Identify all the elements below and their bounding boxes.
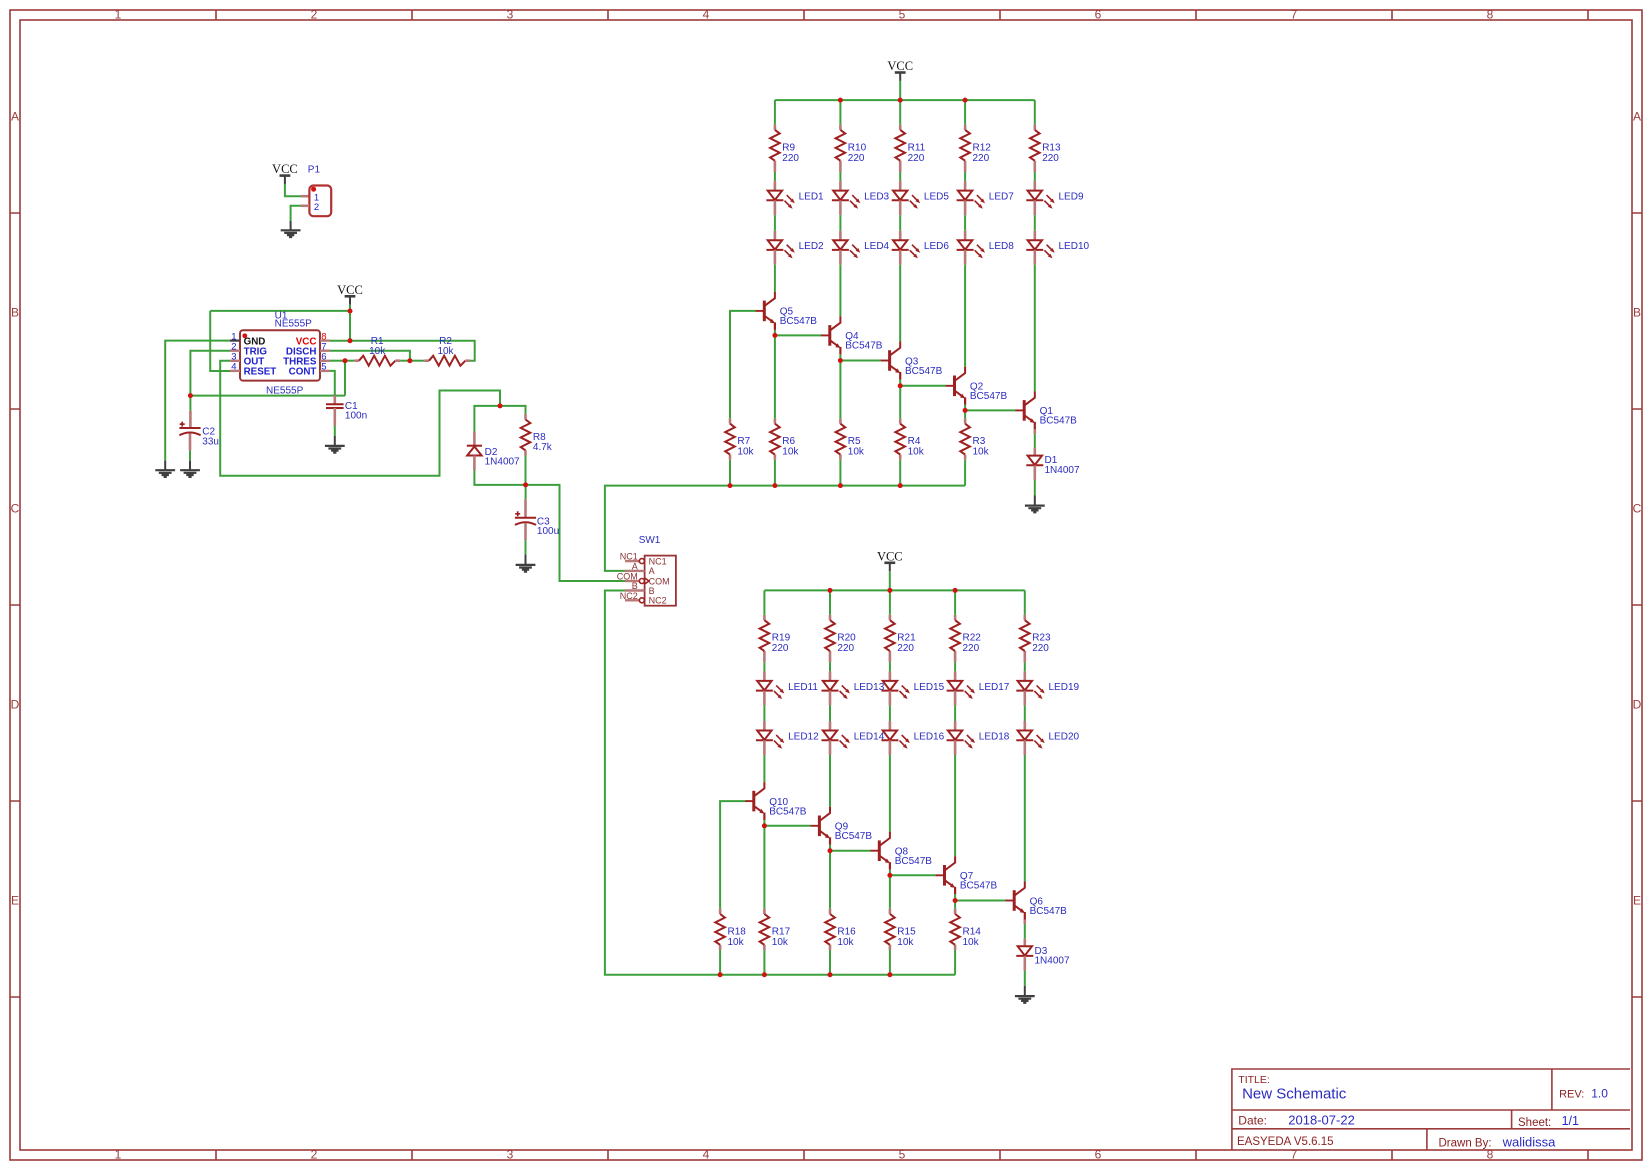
LED LED8: [957, 231, 1015, 265]
svg-text:LED16: LED16: [914, 731, 945, 742]
svg-text:3: 3: [507, 1148, 514, 1162]
svg-text:NC1: NC1: [620, 552, 638, 562]
wire: [839, 172, 841, 181]
wire: [954, 662, 956, 671]
resistor R1: [354, 336, 400, 366]
resistor R20: [825, 615, 856, 662]
power VCC: [877, 549, 903, 571]
svg-text:A: A: [11, 110, 19, 124]
ground: [325, 446, 345, 453]
svg-text:R12: R12: [973, 142, 992, 153]
wire: [344, 361, 346, 396]
svg-text:R4: R4: [908, 436, 921, 447]
svg-text:R16: R16: [837, 926, 856, 937]
transistor Q6: [1005, 882, 1067, 920]
wire: [890, 874, 936, 876]
wire: [889, 950, 891, 975]
svg-text:LED18: LED18: [979, 731, 1010, 742]
svg-text:NC2: NC2: [620, 591, 638, 601]
svg-text:10k: 10k: [369, 346, 386, 357]
wire: [839, 265, 841, 317]
wire: [285, 184, 301, 196]
wire junction: [828, 588, 833, 593]
wire VCC rail: [775, 99, 1035, 101]
svg-text:220: 220: [782, 153, 799, 164]
wire: [1024, 971, 1026, 986]
wire: [829, 755, 831, 807]
resistor R14: [950, 909, 981, 950]
svg-text:1N4007: 1N4007: [1045, 465, 1080, 476]
svg-text:R15: R15: [897, 926, 916, 937]
wire: [763, 590, 765, 615]
wire junction: [343, 358, 348, 363]
svg-text:220: 220: [772, 643, 789, 654]
wire: [1034, 434, 1036, 448]
wire: [189, 451, 191, 461]
svg-text:7: 7: [1291, 1148, 1298, 1162]
wire: [889, 590, 891, 615]
LED LED14: [822, 721, 885, 755]
svg-text:A: A: [632, 561, 638, 571]
resistor R6: [770, 418, 799, 459]
resistor R15: [885, 909, 916, 950]
resistor R12: [960, 125, 991, 172]
wire VCC rail: [764, 589, 1024, 591]
ground: [1025, 506, 1045, 513]
wire: [774, 335, 776, 418]
capacitor C3: [515, 511, 559, 537]
resistor R11: [895, 125, 925, 172]
capacitor C2: [179, 422, 219, 448]
wire junction: [898, 98, 903, 103]
wire: [525, 456, 527, 485]
wire junction: [828, 972, 833, 977]
wire: [889, 662, 891, 671]
wire: [954, 950, 956, 975]
svg-text:LED19: LED19: [1049, 682, 1080, 693]
svg-text:BC547B: BC547B: [960, 881, 998, 892]
wire: [899, 380, 901, 386]
svg-text:LED13: LED13: [854, 682, 885, 693]
wire: [964, 460, 966, 486]
svg-text:5: 5: [899, 8, 906, 22]
svg-text:220: 220: [1032, 643, 1049, 654]
wire: [964, 100, 966, 125]
svg-text:1.0: 1.0: [1591, 1087, 1608, 1101]
wire junction: [188, 393, 193, 398]
wire: [954, 755, 956, 856]
svg-text:8: 8: [1487, 1148, 1494, 1162]
ground: [281, 230, 301, 237]
svg-text:NC2: NC2: [649, 596, 667, 606]
svg-text:100u: 100u: [537, 526, 559, 537]
svg-text:R7: R7: [737, 436, 750, 447]
LED LED4: [832, 231, 890, 265]
title block: [1232, 1069, 1630, 1150]
wire: [1024, 590, 1026, 615]
resistor R17: [760, 909, 791, 950]
svg-text:BC547B: BC547B: [835, 831, 873, 842]
svg-text:LED8: LED8: [989, 241, 1014, 252]
wire: [291, 206, 301, 221]
svg-text:LED7: LED7: [989, 192, 1014, 203]
svg-text:BC547B: BC547B: [780, 316, 818, 327]
wire: [525, 540, 527, 554]
wire junction: [348, 338, 353, 343]
wire junction: [523, 482, 528, 487]
wire: [330, 351, 410, 361]
svg-text:C: C: [11, 502, 20, 516]
svg-text:R5: R5: [848, 436, 861, 447]
wire: [764, 825, 810, 827]
wire: [775, 334, 821, 336]
wire: [605, 591, 955, 975]
capacitor C1: [326, 401, 367, 422]
wire junction: [772, 483, 777, 488]
wire: [839, 460, 841, 486]
wire: [210, 310, 350, 312]
svg-text:LED12: LED12: [788, 731, 819, 742]
resistor R23: [1020, 615, 1051, 662]
wire: [965, 409, 1016, 411]
wire: [954, 901, 956, 909]
LED LED5: [892, 181, 950, 215]
wire junction: [828, 848, 833, 853]
svg-text:BC547B: BC547B: [1030, 906, 1068, 917]
wire: [889, 875, 891, 908]
LED LED15: [881, 671, 944, 705]
LED LED11: [756, 671, 818, 705]
wire junction: [898, 483, 903, 488]
svg-text:5: 5: [321, 362, 326, 373]
wire: [400, 360, 410, 362]
op-amp U1 NE555P: [230, 310, 330, 396]
wire junction: [407, 358, 412, 363]
wire: [763, 705, 765, 721]
ground: [516, 565, 536, 572]
wire junction: [898, 383, 903, 388]
wire: [889, 705, 891, 721]
resistor R9: [770, 125, 799, 172]
wire: [829, 851, 831, 909]
LED LED7: [957, 181, 1015, 215]
wire: [899, 460, 901, 486]
svg-text:LED17: LED17: [979, 682, 1010, 693]
svg-text:6: 6: [1095, 1148, 1102, 1162]
wire: [1024, 924, 1026, 939]
wire: [839, 215, 841, 231]
svg-text:220: 220: [1042, 153, 1059, 164]
wire: [964, 172, 966, 181]
svg-text:10k: 10k: [728, 937, 745, 948]
wire: [330, 360, 345, 362]
resistor R18: [715, 909, 746, 950]
transistor Q5: [756, 292, 818, 330]
wire: [954, 894, 956, 900]
diode D3: [1016, 939, 1070, 967]
wire: [830, 850, 871, 852]
wire: [730, 311, 756, 419]
wire junction: [762, 972, 767, 977]
resistor R19: [760, 615, 791, 662]
svg-text:1N4007: 1N4007: [485, 457, 520, 468]
ground: [1015, 996, 1035, 1003]
wire junction: [728, 483, 733, 488]
connector P1: [308, 164, 331, 216]
svg-text:10k: 10k: [772, 937, 789, 948]
svg-text:R22: R22: [963, 633, 982, 644]
LED LED6: [892, 231, 950, 265]
svg-text:R10: R10: [848, 142, 867, 153]
wire: [1024, 662, 1026, 671]
wire: [1024, 705, 1026, 721]
svg-text:E: E: [11, 894, 19, 908]
svg-text:2018-07-22: 2018-07-22: [1288, 1113, 1355, 1128]
wire: [345, 360, 354, 362]
wire: [1034, 480, 1036, 495]
LED LED2: [766, 231, 824, 265]
wire: [220, 361, 500, 476]
svg-text:COM: COM: [617, 572, 638, 582]
svg-text:B: B: [649, 586, 655, 596]
wire: [334, 426, 336, 436]
wire junction: [762, 823, 767, 828]
LED LED20: [1016, 721, 1079, 755]
wire: [349, 311, 351, 341]
svg-text:REV:: REV:: [1559, 1089, 1584, 1101]
svg-text:1N4007: 1N4007: [1035, 956, 1070, 967]
LED LED17: [947, 671, 1010, 705]
wire junction: [953, 898, 958, 903]
wire: [955, 900, 1006, 902]
wire: [330, 371, 335, 396]
wire junction: [963, 408, 968, 413]
svg-text:R9: R9: [782, 142, 795, 153]
resistor R16: [825, 909, 856, 950]
resistor R7: [725, 418, 754, 459]
wire: [1034, 215, 1036, 231]
transistor Q1: [1015, 391, 1077, 429]
wire junction: [887, 873, 892, 878]
svg-text:220: 220: [973, 153, 990, 164]
wire: [1034, 100, 1036, 125]
wire: [719, 950, 721, 975]
svg-text:VCC: VCC: [272, 162, 298, 176]
svg-text:B: B: [1633, 306, 1641, 320]
LED LED3: [832, 181, 890, 215]
svg-text:LED5: LED5: [924, 192, 949, 203]
svg-text:R21: R21: [897, 633, 916, 644]
wire: [829, 590, 831, 615]
svg-text:COM: COM: [649, 576, 670, 586]
ground: [180, 470, 200, 477]
svg-text:E: E: [1633, 894, 1641, 908]
svg-text:NE555P: NE555P: [275, 319, 313, 330]
wire: [189, 396, 191, 411]
svg-text:4: 4: [703, 8, 710, 22]
svg-text:R19: R19: [772, 633, 791, 644]
wire: [889, 571, 891, 590]
diode D2: [467, 446, 520, 468]
svg-text:1: 1: [115, 8, 122, 22]
wire: [774, 215, 776, 231]
svg-text:BC547B: BC547B: [895, 856, 933, 867]
wire: [964, 405, 966, 411]
svg-text:R14: R14: [963, 926, 982, 937]
svg-text:10k: 10k: [837, 937, 854, 948]
resistor R22: [950, 615, 981, 662]
LED LED19: [1016, 671, 1079, 705]
power VCC: [337, 283, 363, 305]
diode D1: [1026, 448, 1080, 476]
svg-text:A: A: [1633, 110, 1641, 124]
wire junction: [963, 98, 968, 103]
wire junction: [838, 483, 843, 488]
frame row letters: [11, 110, 1642, 908]
wire junction: [348, 309, 353, 314]
svg-text:5: 5: [899, 1148, 906, 1162]
wire: [954, 705, 956, 721]
wire: [899, 172, 901, 181]
wire: [774, 265, 776, 292]
transistor Q10: [745, 782, 807, 820]
svg-text:B: B: [632, 581, 638, 591]
transistor Q4: [821, 316, 883, 354]
wire: [900, 385, 946, 387]
resistor R2: [424, 336, 470, 366]
wire junction: [772, 333, 777, 338]
resistor R13: [1030, 125, 1061, 172]
wire junction: [953, 588, 958, 593]
wire: [763, 662, 765, 671]
wire: [1024, 755, 1026, 882]
svg-text:1/1: 1/1: [1562, 1114, 1579, 1128]
wire: [1034, 172, 1036, 181]
resistor R21: [885, 615, 916, 662]
svg-text:walidissa: walidissa: [1502, 1134, 1557, 1149]
wire: [829, 662, 831, 671]
svg-text:220: 220: [848, 153, 865, 164]
power VCC: [887, 59, 913, 81]
svg-text:Sheet:: Sheet:: [1518, 1117, 1551, 1129]
wire: [774, 330, 776, 336]
resistor R8: [521, 414, 553, 455]
svg-text:10k: 10k: [848, 447, 865, 458]
LED LED9: [1026, 181, 1084, 215]
svg-text:VCC: VCC: [887, 59, 913, 73]
wire: [165, 341, 230, 461]
resistor R3: [960, 418, 989, 459]
wire: [774, 172, 776, 181]
svg-text:100n: 100n: [345, 411, 367, 422]
svg-text:LED3: LED3: [864, 192, 889, 203]
svg-text:10k: 10k: [908, 447, 925, 458]
wire: [889, 755, 891, 832]
svg-text:LED2: LED2: [799, 241, 824, 252]
wire: [839, 354, 841, 360]
svg-text:220: 220: [837, 643, 854, 654]
svg-text:LED6: LED6: [924, 241, 949, 252]
svg-text:SW1: SW1: [639, 535, 661, 546]
wire: [526, 485, 625, 581]
svg-text:R13: R13: [1042, 142, 1061, 153]
wire: [210, 311, 230, 371]
svg-text:RESET: RESET: [244, 367, 277, 378]
power VCC: [272, 162, 298, 184]
svg-text:R17: R17: [772, 926, 791, 937]
wire: [964, 410, 966, 418]
wire junction: [887, 588, 892, 593]
svg-text:LED1: LED1: [799, 192, 824, 203]
svg-text:4.7k: 4.7k: [533, 442, 553, 453]
svg-text:6: 6: [1095, 8, 1102, 22]
svg-text:4: 4: [231, 362, 236, 373]
svg-text:BC547B: BC547B: [970, 391, 1008, 402]
svg-text:R20: R20: [837, 633, 856, 644]
wire: [954, 590, 956, 615]
wire: [840, 360, 881, 362]
svg-text:New Schematic: New Schematic: [1242, 1086, 1347, 1103]
svg-text:EASYEDA V5.6.15: EASYEDA V5.6.15: [1237, 1136, 1334, 1148]
LED LED16: [881, 721, 944, 755]
LED LED1: [766, 181, 824, 215]
svg-text:33u: 33u: [202, 436, 219, 447]
svg-text:BC547B: BC547B: [1040, 416, 1078, 427]
transistor Q3: [881, 342, 943, 380]
svg-text:BC547B: BC547B: [905, 366, 943, 377]
wire: [763, 826, 765, 909]
svg-text:B: B: [11, 306, 19, 320]
svg-text:C: C: [1633, 502, 1642, 516]
wire: [330, 341, 475, 361]
wire: [605, 486, 965, 571]
wire: [720, 801, 745, 909]
svg-text:8: 8: [1487, 8, 1494, 22]
svg-text:R3: R3: [973, 436, 986, 447]
svg-text:LED20: LED20: [1049, 731, 1080, 742]
LED LED18: [947, 721, 1010, 755]
wire: [899, 81, 901, 100]
wire: [763, 820, 765, 826]
svg-text:LED9: LED9: [1059, 192, 1084, 203]
transistor Q8: [871, 832, 933, 870]
svg-text:10k: 10k: [437, 346, 454, 357]
svg-text:VCC: VCC: [337, 283, 363, 297]
LED LED10: [1026, 231, 1089, 265]
wire: [839, 100, 841, 125]
wire: [774, 460, 776, 486]
svg-text:7: 7: [1291, 8, 1298, 22]
svg-text:220: 220: [908, 153, 925, 164]
svg-text:R18: R18: [728, 926, 747, 937]
wire: [899, 100, 901, 125]
wire: [525, 485, 527, 499]
wire junction: [838, 98, 843, 103]
wire: [829, 845, 831, 851]
resistor R4: [895, 418, 924, 459]
svg-text:3: 3: [507, 8, 514, 22]
svg-text:4: 4: [703, 1148, 710, 1162]
wire: [829, 705, 831, 721]
svg-text:10k: 10k: [897, 937, 914, 948]
svg-text:2: 2: [311, 1148, 318, 1162]
svg-text:D: D: [1633, 698, 1642, 712]
wire: [839, 361, 841, 419]
svg-text:10k: 10k: [963, 937, 980, 948]
svg-text:BC547B: BC547B: [845, 341, 883, 352]
transistor Q2: [946, 367, 1008, 405]
wire: [1034, 265, 1036, 392]
